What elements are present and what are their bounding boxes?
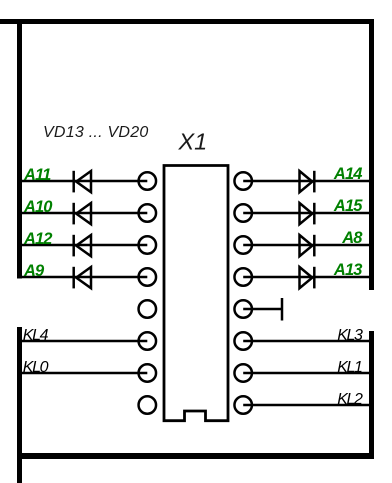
svg-text:A8: A8 bbox=[341, 229, 363, 247]
svg-text:A15: A15 bbox=[333, 197, 363, 215]
svg-text:A14: A14 bbox=[333, 165, 362, 183]
svg-text:A10: A10 bbox=[23, 198, 53, 216]
svg-text:KL3: KL3 bbox=[337, 327, 363, 344]
svg-text:A11: A11 bbox=[23, 166, 51, 184]
svg-text:X1: X1 bbox=[178, 128, 208, 154]
svg-text:KL0: KL0 bbox=[23, 359, 49, 376]
svg-text:VD13 ... VD20: VD13 ... VD20 bbox=[43, 124, 149, 141]
svg-text:A9: A9 bbox=[23, 262, 45, 280]
svg-text:KL2: KL2 bbox=[337, 391, 363, 408]
svg-text:KL4: KL4 bbox=[23, 327, 49, 344]
svg-text:A13: A13 bbox=[333, 261, 362, 279]
svg-text:KL1: KL1 bbox=[337, 359, 362, 376]
svg-text:A12: A12 bbox=[23, 230, 52, 248]
